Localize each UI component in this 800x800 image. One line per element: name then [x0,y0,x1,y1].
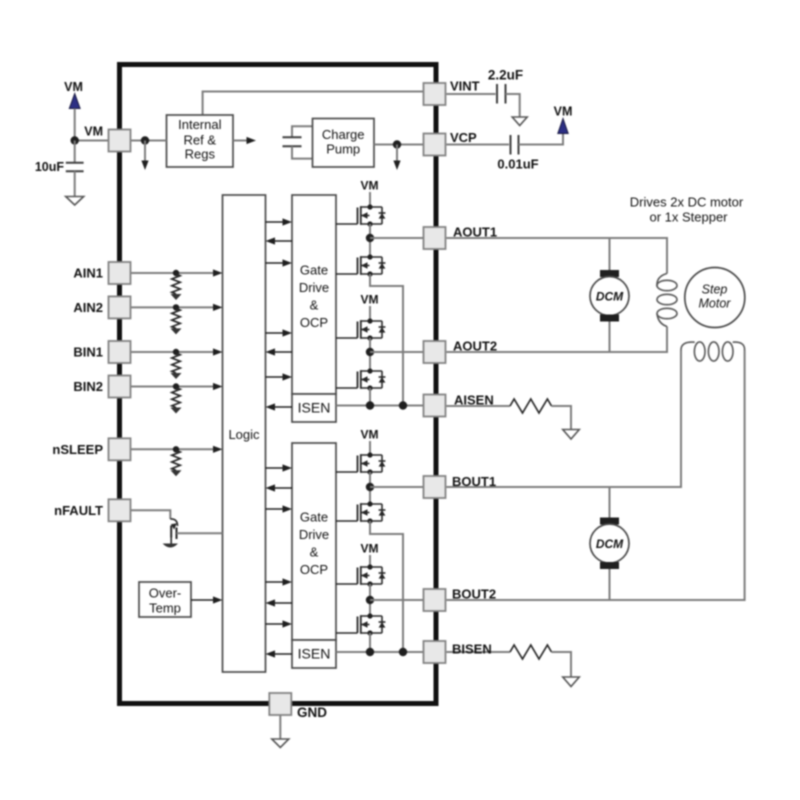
pin BOUT2 [424,589,446,611]
ground below 10uF [66,197,84,206]
wire VINT to Internal Ref block [203,92,430,116]
VM supply arrow (top left) [69,94,80,109]
capacitor 0.01uF on VCP [447,134,564,155]
svg-text:Temp: Temp [149,601,181,616]
svg-text:VM: VM [361,179,379,193]
capacitor 2.2uF on VINT [447,84,520,117]
VM supply arrow (VCP cap) [558,119,568,134]
pin BOUT1 [424,476,446,498]
ground pulldown BIN1 [171,373,182,379]
box Internal Ref & Regs U-ref [167,115,234,167]
wire VM to Q5 drain [369,441,371,455]
arrow out of Internal Ref block [233,140,247,142]
wire AISEN to sense resistor [447,405,511,407]
svg-text:10uF: 10uF [35,160,65,174]
wire VM arrow to node [74,109,76,141]
wire DCM B branch top [609,487,611,518]
control arrow logic/gatedriveB y=468 [266,467,285,469]
control arrow logic/gatedriveB y=603 [274,602,292,604]
wire Q1 source to AOUT1 node [369,224,371,257]
control arrow logic/gatedriveA y=377 [266,376,285,378]
svg-text:Charge: Charge [322,127,365,142]
arrow Over-Temp to logic [191,599,214,601]
wire Q6 source to ISEN B rail [370,521,403,652]
wire nFAULT to open-drain FET [131,510,171,519]
wire VM pin to Internal Ref block [120,140,167,142]
resistor pulldown AIN1 [172,274,180,294]
node VCP [393,140,401,148]
wire nSLEEP input to logic [131,448,215,450]
svg-text:AISEN: AISEN [454,393,494,408]
wire BOUT1 node to BOUT1 pin [370,486,428,488]
ground below 2.2uF [512,117,527,126]
svg-text:VM: VM [64,80,83,94]
svg-text:AIN2: AIN2 [73,300,103,315]
svg-text:Regs: Regs [185,147,216,162]
svg-text:&: & [310,545,319,560]
box Over-Temp [139,582,191,617]
svg-text:DCM: DCM [596,537,624,551]
svg-text:Ref &: Ref & [184,133,217,148]
resistor BISEN sense [510,645,552,659]
node pulldown BIN1 [173,349,179,355]
svg-text:ISEN: ISEN [298,646,331,662]
wire Q3 source to AOUT2 node [369,338,371,371]
box ISEN B [292,640,336,668]
ground pulldown AIN2 [171,328,182,334]
svg-text:VM: VM [361,293,379,307]
svg-text:0.01uF: 0.01uF [497,157,538,172]
control arrow logic/gatedriveB y=624 [266,623,285,625]
wire Q7 source to BOUT2 node [369,584,371,616]
wire AIN2 input to logic [131,306,215,308]
node internal VM [141,136,149,144]
svg-text:ISEN: ISEN [298,400,331,416]
transistor Q3 A-high-2 [336,318,385,340]
ground pulldown AIN1 [171,294,182,300]
ground BISEN [563,677,580,687]
current stub arrow below VM node [144,141,146,163]
svg-text:Over-: Over- [149,586,182,601]
svg-text:Gate: Gate [300,510,328,525]
svg-text:BIN1: BIN1 [73,345,103,360]
svg-text:Motor: Motor [699,297,732,311]
wire VM to Q3 drain [369,306,371,321]
wire ISEN A rail to AISEN pin [336,405,428,407]
wire AISEN resistor to ground [552,406,572,430]
transistor Q1 A-high-1 [336,204,385,226]
pin VM [109,130,131,152]
svg-text:VCP: VCP [450,130,477,145]
motor DCM B [590,518,629,570]
svg-text:BOUT1: BOUT1 [452,474,496,489]
box Logic [223,195,266,672]
svg-text:Drive: Drive [299,527,329,542]
svg-text:DCM: DCM [596,290,624,304]
wire Q5 source to BOUT1 node [369,472,371,504]
control arrow logic/gatedriveB y=509 [266,508,285,510]
svg-text:VM: VM [361,428,379,442]
ground nFAULT FET [163,544,178,548]
node ISEN A left [366,401,374,409]
node ISEN B right [399,648,407,656]
svg-text:nSLEEP: nSLEEP [52,442,103,457]
wire VM to Q1 drain [369,192,371,207]
svg-text:nFAULT: nFAULT [54,503,103,518]
wire BOUT2 node to BOUT2 pin [370,599,428,601]
wire logic to nFAULT gate [177,532,223,534]
wire VM to Q7 drain [369,555,371,567]
svg-text:VM: VM [361,542,379,556]
control arrow logic/gatedriveB y=582 [266,581,285,583]
wire GND pin to ground [279,715,281,739]
node ISEN A right [399,401,407,409]
wire Q8 source to ISEN B rail [369,633,371,652]
wire AOUT1 node to AOUT1 pin [370,237,428,239]
wire DCM B branch bottom [609,569,611,600]
svg-text:VINT: VINT [450,79,480,94]
pin VCP [424,134,446,156]
svg-text:Step: Step [702,283,728,297]
pin AISEN [424,395,446,417]
resistor pulldown BIN1 [172,353,180,373]
svg-text:VM: VM [84,125,103,139]
transistor Q2 A-low-1 [336,254,385,276]
svg-text:2.2uF: 2.2uF [488,68,523,83]
wire Charge Pump to VCP pin [374,144,428,146]
node BOUT1 [366,483,374,491]
pin AIN1 [109,262,131,284]
box Charge Pump [313,119,375,168]
transistor Q4 A-low-2 [336,368,385,390]
svg-text:Pump: Pump [326,142,360,157]
node pulldown AIN2 [173,304,179,310]
svg-text:OCP: OCP [300,315,328,330]
node pulldown AIN1 [173,270,179,276]
resistor AISEN sense [510,399,552,413]
ground pulldown BIN2 [171,408,182,414]
control arrow logic/gatedriveA y=333 [266,332,285,334]
inductor winding B (stepper phase B) [681,342,745,361]
current stub arrow below VCP node [396,145,398,163]
resistor pulldown AIN2 [172,308,180,328]
wire AIN1 input to logic [131,272,215,274]
svg-text:or 1x Stepper: or 1x Stepper [649,210,728,225]
svg-text:Drive: Drive [299,280,329,295]
node VM [71,136,79,144]
box Gate Drive & OCP B [292,443,336,640]
pin BIN2 [109,376,131,398]
wire BISEN to sense resistor [447,651,511,653]
svg-text:AIN1: AIN1 [73,266,103,281]
wire BIN1 input to logic [131,351,215,353]
node AOUT1 [366,234,374,242]
transistor Q8 B-low-2 [336,613,385,635]
pin AIN2 [109,296,131,318]
pin BISEN [424,641,446,663]
wire BIN2 input to logic [131,386,215,388]
svg-text:VM: VM [554,105,573,119]
svg-text:AOUT1: AOUT1 [453,225,497,240]
pin AOUT1 [424,227,446,249]
motor Step Motor [685,268,745,328]
node AOUT2 [366,348,374,356]
resistor pulldown BIN2 [172,388,180,408]
svg-text:GND: GND [297,705,327,720]
svg-text:BOUT2: BOUT2 [452,587,496,602]
transistor Q7 B-high-2 [336,564,385,586]
node BOUT2 [366,596,374,604]
svg-text:&: & [310,298,319,313]
ground below GND pin [272,739,289,748]
pin BIN1 [109,341,131,363]
control arrow logic/gatedriveA y=352 [274,351,292,353]
node pulldown BIN2 [173,383,179,389]
svg-text:AOUT2: AOUT2 [453,339,497,354]
transistor Q5 B-high-1 [336,452,385,474]
motor DCM A [590,270,629,322]
wire BOUT2 to winding B [447,351,745,601]
box ISEN A [292,394,336,422]
wire AOUT1 to winding A [447,238,668,274]
control arrow logic/gatedriveB y=488 [274,487,292,489]
svg-text:BIN2: BIN2 [73,379,103,394]
resistor pulldown nSLEEP [172,450,180,470]
wire Q2 source to ISEN A rail [370,274,403,406]
ground pulldown nSLEEP [171,470,182,476]
wire AOUT2 to winding A [447,327,668,353]
wire DCM A branch top [609,238,611,270]
wire BISEN resistor to ground [552,652,572,677]
capacitor flying cap of charge pump [283,126,313,158]
ground AISEN [563,430,580,440]
wire ISEN B rail to BISEN pin [336,651,428,653]
arrow ISEN B to logic [274,653,292,655]
transistor nFAULT open-drain FET [170,519,177,544]
inductor winding A (stepper phase A) [657,274,677,327]
arrow ISEN A to logic [274,406,292,408]
pin nFAULT [109,499,131,521]
node ISEN B left [366,648,374,656]
IC device outline [120,65,437,704]
wire node to VM pin [75,140,109,142]
capacitor 10uF [66,141,84,197]
wire Q4 source to ISEN A rail [369,388,371,406]
control arrow logic/gatedriveA y=241 [274,240,292,242]
transistor Q6 B-low-1 [336,501,385,523]
svg-text:OCP: OCP [300,562,328,577]
pin AOUT2 [424,341,446,363]
control arrow logic/gatedriveA y=222 [266,221,285,223]
svg-text:Logic: Logic [228,427,260,442]
svg-text:Gate: Gate [300,263,328,278]
wire BOUT1 to winding B [447,351,682,488]
pin GND [269,693,291,715]
pin VINT [424,83,446,105]
box Gate Drive & OCP A [292,195,336,394]
pin nSLEEP [109,438,131,460]
svg-text:BISEN: BISEN [452,642,492,657]
control arrow logic/gatedriveA y=263 [266,262,285,264]
wire AOUT2 node to AOUT2 pin [370,351,428,353]
wire DCM A branch bottom [609,322,611,353]
node pulldown nSLEEP [173,446,179,452]
svg-text:Internal: Internal [178,117,221,132]
svg-text:Drives 2x DC motor: Drives 2x DC motor [630,195,744,210]
